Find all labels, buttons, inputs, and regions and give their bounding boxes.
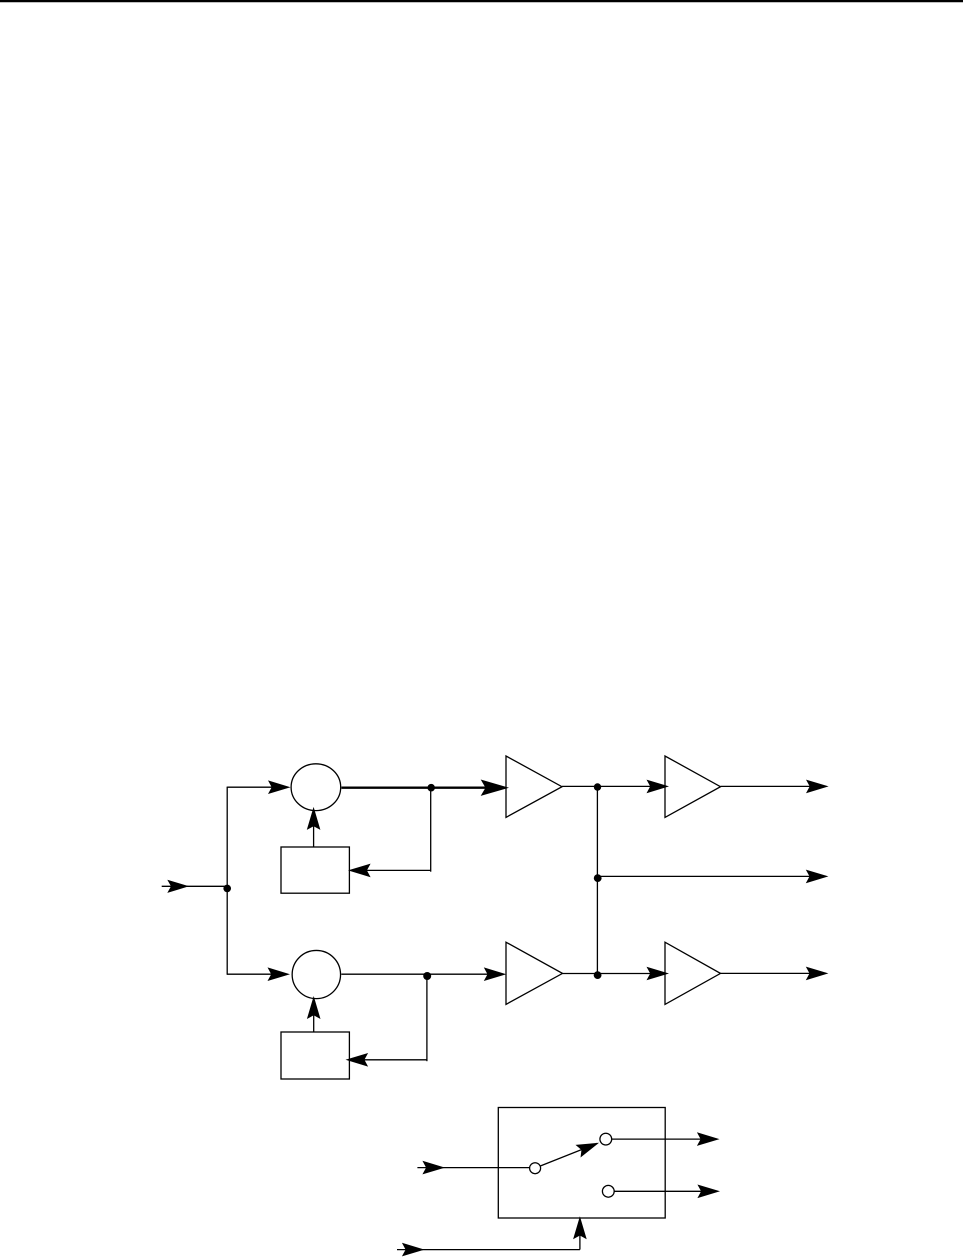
- node: input junction: [223, 885, 231, 893]
- wire: summer 1 output (thick): [342, 787, 505, 789]
- amplifier 1: [506, 756, 562, 817]
- wire: feedback 2 into block 2: [346, 1053, 427, 1067]
- wire: center vertical bus: [596, 787, 598, 975]
- feedback block 2: [281, 1032, 349, 1079]
- amplifier 2: [665, 756, 721, 817]
- switch lever: [541, 1136, 602, 1165]
- wire: block 1 to summer 1: [307, 807, 321, 847]
- feedback block 1: [281, 847, 349, 893]
- wire: amp 3 to amp 4: [563, 973, 666, 975]
- wire: main input line: [162, 880, 228, 893]
- amplifier 4: [665, 942, 721, 1004]
- wire: switch output B: [614, 1185, 720, 1199]
- node: feedback tap 1: [427, 784, 435, 792]
- switch box: [498, 1108, 665, 1219]
- arrowhead into amplifier 4: [647, 967, 670, 981]
- wire: block 2 to summer 2: [307, 996, 321, 1032]
- switch contact: position B: [602, 1185, 614, 1197]
- arrowhead into amplifier 2: [647, 780, 670, 794]
- wire: feedback 1 vertical: [430, 788, 432, 872]
- switch contact: position A: [600, 1133, 612, 1145]
- node: row 1 junction: [594, 783, 601, 790]
- summing junction 2: [292, 950, 340, 998]
- switch contact: common: [530, 1163, 541, 1174]
- wire: summer 2 output: [341, 973, 503, 975]
- wire: feedback 2 vertical: [426, 975, 428, 1061]
- arrowhead into amplifier 1: [481, 780, 509, 796]
- wire: switch control horizontal: [397, 1243, 580, 1257]
- wire: switch input: [417, 1161, 529, 1175]
- wire: switch output A: [612, 1132, 720, 1146]
- amplifier 3: [506, 942, 563, 1004]
- wire: output 3: [721, 967, 829, 981]
- wire: left vertical bus: [226, 787, 228, 975]
- node: feedback tap 2: [423, 972, 431, 980]
- wire: output 2 (middle): [597, 870, 828, 884]
- node: row 3 junction: [594, 971, 602, 979]
- arrowhead into amplifier 3: [484, 967, 507, 981]
- summing junction 1: [291, 764, 341, 811]
- wire: into summing junction 2: [227, 967, 290, 981]
- wire: amp 1 to amp 2: [562, 785, 665, 787]
- wire: switch control vertical: [573, 1216, 587, 1249]
- wire: into summing junction 1: [227, 780, 290, 794]
- wire: output 1: [721, 780, 829, 794]
- wire: feedback 1 into block 1: [348, 864, 431, 878]
- node: middle output junction: [594, 874, 602, 882]
